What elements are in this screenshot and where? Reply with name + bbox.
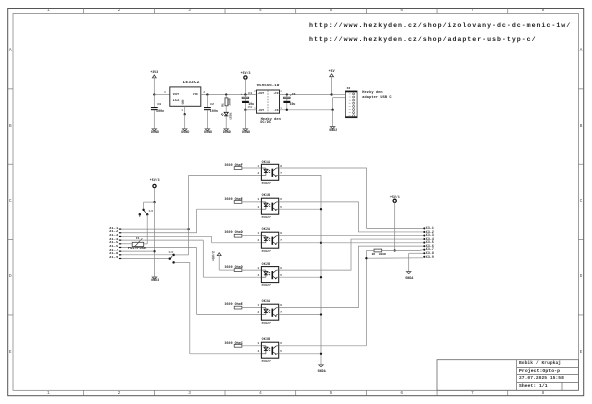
label: X3-2 <box>426 231 434 234</box>
wire +5V3 vertical to GND3 <box>154 202 156 277</box>
junction node gnda rail <box>320 242 322 244</box>
label: C <box>580 200 583 205</box>
supply ring +5V/3 mid <box>153 184 156 202</box>
wire X2 pin2 to gnd drop <box>333 98 346 110</box>
frame column ticks and numbers <box>84 9 508 396</box>
label: 2 <box>258 240 260 243</box>
junction node gnda rail <box>320 313 322 315</box>
label: 6 <box>400 9 403 14</box>
supply +3V3 <box>152 75 156 95</box>
label: 7 <box>280 240 282 243</box>
wire IC2 gnd down <box>184 114 186 128</box>
label: 1 <box>258 305 260 308</box>
label: +5V/2 <box>212 251 215 261</box>
label: B <box>9 125 12 130</box>
label: +OUT <box>257 93 264 96</box>
wire SJ2 padA right <box>175 254 189 256</box>
label: 1 <box>258 166 260 169</box>
label: Sheet: 1/1 <box>519 385 548 390</box>
label: PC827 <box>262 216 271 219</box>
resistor 3600 Ohm for OK3A <box>234 306 261 309</box>
label: PC827 <box>262 284 271 287</box>
label: 5 <box>280 207 282 210</box>
label: PC827 <box>262 360 271 363</box>
label: 4 <box>280 108 281 110</box>
label: X1-4 <box>109 239 118 243</box>
connector X3 pins <box>423 227 425 257</box>
label: X3-5 <box>426 241 434 244</box>
label: PC827 <box>262 250 271 253</box>
label: Hezky den <box>261 119 281 123</box>
solder jumper SJ1 <box>139 209 149 217</box>
label: 6 <box>400 392 403 397</box>
label: OK3A <box>262 300 271 303</box>
label: 3 <box>258 268 260 271</box>
label: B <box>580 125 583 130</box>
wire X1-1 <box>121 228 188 230</box>
label: X3-3 <box>426 234 434 237</box>
label: X1-9 <box>109 257 118 261</box>
label: 4 <box>258 207 260 210</box>
supply +5V usb <box>330 74 334 95</box>
ground DGND under IC2 <box>182 129 187 131</box>
label: 5 <box>330 9 333 14</box>
label: 0505SG-1W <box>257 84 280 88</box>
junction node IC2 gnd <box>184 113 186 115</box>
label: 8 <box>280 305 282 308</box>
junction node gnda rail <box>320 208 322 210</box>
ground GND2 <box>330 127 335 129</box>
wire IC2 VIN to rail <box>201 94 257 96</box>
label: DC/DC <box>260 122 271 125</box>
label: C2 <box>210 103 214 106</box>
label: LED1 <box>229 112 232 119</box>
ground DGND under C2 <box>205 129 210 131</box>
label: 100n <box>156 110 164 113</box>
junction node R1 <box>225 93 227 95</box>
label: X3-7 <box>426 248 434 251</box>
label: http://www.hezkyden.cz/shop/adapter-usb-typ-c/ <box>309 37 537 44</box>
wire X1-8 to SJ2 <box>121 254 172 256</box>
label: 1 <box>47 9 50 14</box>
supply +5V/2 arrow for OK2B <box>217 253 234 270</box>
label: VIN <box>193 94 198 97</box>
optocoupler OK1A PC827 <box>261 164 278 180</box>
label: X1-6 <box>109 246 118 250</box>
optocoupler OK3A PC827 <box>261 304 278 320</box>
label: DGND <box>181 131 189 134</box>
label: A <box>580 49 583 54</box>
resistor R1 200R <box>225 95 228 113</box>
label: X1-3 <box>109 235 118 239</box>
wire down to GND2 <box>332 110 334 127</box>
wire +3V3 rail to IC2 VOUT <box>154 94 170 96</box>
wire X1-9 to SJ2 <box>121 258 168 260</box>
label: 8 <box>280 233 282 236</box>
optocoupler OK2A PC827 <box>261 232 278 248</box>
label: 3600 OhmE <box>225 303 243 306</box>
wire to SJ1 top pad <box>144 202 155 209</box>
label: GND <box>183 100 186 105</box>
title block <box>437 360 578 391</box>
label: 6 <box>280 343 282 346</box>
label: C9 <box>157 103 161 106</box>
label: D <box>9 275 12 280</box>
ground GNDA right <box>406 272 411 274</box>
label: OK1B <box>262 194 271 197</box>
label: DGND <box>204 131 212 134</box>
label: 5 <box>280 275 282 278</box>
junction node C4 top <box>244 93 246 95</box>
label: 10u <box>248 103 254 106</box>
label: A <box>9 49 12 54</box>
label: +3V3 <box>150 71 158 74</box>
IC2 GND pin wire <box>184 106 186 114</box>
wire X3-5 from gnda rail <box>321 242 423 244</box>
ground DGND under LED1 <box>224 129 229 131</box>
label: 100n <box>210 110 218 113</box>
label: 5 <box>280 351 282 354</box>
label: 7 <box>280 173 282 176</box>
fuse F1 POLYFUSE <box>132 238 144 247</box>
wire OK1B collector to X3-2 <box>279 202 424 232</box>
label: 2 <box>118 392 121 397</box>
label: GNDA <box>318 370 326 373</box>
label: R1 <box>222 103 225 107</box>
label: X2 <box>347 87 351 90</box>
label: 1 <box>181 110 183 113</box>
capacitor C9 100n <box>151 95 158 129</box>
junction node R2/+5V1 <box>394 249 396 251</box>
label: 7 <box>471 392 474 397</box>
dc-dc converter 0505SG-1W <box>257 90 280 113</box>
label: X1-7 <box>109 250 118 254</box>
label: 8 <box>542 392 545 397</box>
label: 25V <box>248 107 253 110</box>
label: GND2 <box>329 129 337 132</box>
label: +5V/3 <box>150 179 160 182</box>
label: 2 <box>203 92 205 95</box>
label: X3-8 <box>426 252 434 255</box>
junction node C2 <box>206 93 208 95</box>
wire +5V rail to X2 pin1 <box>332 94 346 96</box>
resistor 3600 Ohm for OK2B <box>234 269 261 272</box>
label: 4 <box>258 351 260 354</box>
label: SJ2 <box>169 252 174 255</box>
label: X1-8 <box>109 253 118 257</box>
junction node gnda rail <box>320 276 322 278</box>
label: GND3 <box>151 279 159 282</box>
wire X3-8 to GNDA <box>409 253 424 271</box>
label: DGND <box>242 131 250 134</box>
label: +IN <box>273 93 278 96</box>
label: 2 <box>118 9 121 14</box>
label: 3 <box>188 392 191 397</box>
resistor 3600 Ohm for OK1B <box>234 201 261 204</box>
ground GND3 <box>152 277 157 279</box>
wire X1-6 <box>121 246 196 248</box>
label: 3 <box>258 343 260 346</box>
label: Bobik / Krupkaj <box>519 362 561 367</box>
label: X3-6 <box>426 245 434 248</box>
label: DGND <box>223 131 231 134</box>
wire net X1-4 to OK2B cathode <box>203 240 261 277</box>
junction node C5 bottom <box>286 109 288 111</box>
label: E <box>580 351 583 356</box>
label: OK2B <box>262 263 271 266</box>
label: 3600 OhmF <box>225 164 243 167</box>
label: 7 <box>280 312 282 315</box>
label: 300R <box>379 254 386 257</box>
wire OK2A collector to X3-3 <box>279 235 424 237</box>
label: 7 <box>471 9 474 14</box>
label: 27.07.2025 15:58 <box>519 377 564 382</box>
label: +5V/3 <box>241 72 251 75</box>
label: X1-5 <box>109 242 118 246</box>
junction node SJ1 tap <box>153 201 155 203</box>
wire net X1-6 to OK3A cathode <box>197 248 262 315</box>
wire OK1A collector to X3-1 <box>279 168 424 228</box>
junction node X1-7 <box>153 250 155 252</box>
label: OK3B <box>262 338 271 341</box>
label: 5 <box>330 392 333 397</box>
label: 6 <box>280 199 282 202</box>
label: 4 <box>259 9 262 14</box>
wire -IN bottom rail right <box>280 109 333 111</box>
label: 2 <box>258 312 260 315</box>
junction node +5V rail <box>330 93 332 95</box>
label: 3 <box>188 9 191 14</box>
label: Hezky den <box>362 92 382 96</box>
label: Project:Opto-p <box>519 370 560 375</box>
label: GNDA <box>405 277 413 280</box>
wire OK2B collector to X3-4 <box>279 239 424 270</box>
resistor 3600 Ohm for OK1A <box>234 167 261 170</box>
label: 3 <box>258 199 260 202</box>
resistor 3600 Ohm for OK2A <box>234 234 261 237</box>
optocoupler OK1B PC827 <box>261 198 278 214</box>
wire net X1-3 to OK2A cathode <box>212 237 262 243</box>
wire OK3A collector to X3-6 <box>279 246 424 307</box>
label: PC827 <box>262 182 271 185</box>
wire +IN to C5 <box>280 94 332 96</box>
label: + <box>240 94 242 97</box>
ground DGND under C4 <box>243 129 248 131</box>
wire -OUT to C4 bottom rail <box>245 109 256 111</box>
supply ring +5V/1 <box>393 199 396 250</box>
label: X3-9 <box>426 256 434 259</box>
wire opto emitter row 209.2 <box>279 208 321 210</box>
wire net X1-1/X1-8 to OK1A cathode <box>189 175 262 255</box>
capacitor C4 10u polarized <box>242 95 249 110</box>
label: 2 <box>254 91 255 93</box>
label: X3-1 <box>426 227 434 230</box>
label: D <box>580 275 583 280</box>
label: 1 <box>47 392 50 397</box>
label: X1-1 <box>109 228 118 232</box>
label: 1 <box>254 108 255 110</box>
label: 3600 OhmC <box>225 342 243 345</box>
label: 3 <box>164 92 166 95</box>
label: +5V/1 <box>390 196 400 199</box>
label: LE33CZ <box>183 81 200 85</box>
label: X3-4 <box>426 238 434 241</box>
wire opto emitter row 314.5 <box>279 314 321 316</box>
ground DGND under C9 <box>152 129 157 131</box>
wire SJ1 to fuse F1 <box>144 214 148 244</box>
optocoupler OK3B PC827 <box>261 342 278 358</box>
label: 8 <box>280 166 282 169</box>
junction node X3-9 tap <box>365 257 367 259</box>
label: POLYFUSE <box>128 248 147 252</box>
label: VOUT <box>173 94 179 97</box>
wire SJ2 padC to OK3B cathode <box>175 262 262 353</box>
solder jumper SJ2 <box>169 254 175 264</box>
label: OK2A <box>262 228 271 231</box>
label: R2 <box>372 254 375 257</box>
label: SJ1 <box>149 211 154 214</box>
label: OK1A <box>262 161 271 164</box>
label: http://www.hezkyden.cz/shop/izolovany-dc-dc-menic-1w/ <box>309 23 571 30</box>
capacitor C5 10u polarized <box>283 95 290 110</box>
capacitor C2 100n <box>204 95 211 129</box>
label: 200R <box>229 98 232 105</box>
wire R2 left to X3-9 and OK3B collector <box>279 251 424 346</box>
label: 6 <box>280 268 282 271</box>
wire C4 to DGND <box>244 110 246 129</box>
resistor 3600 Ohm for OK3B <box>234 344 261 347</box>
wire X1-5 to fuse <box>121 243 132 245</box>
label: IC2 <box>173 100 180 104</box>
frame row ticks and letters <box>8 89 584 315</box>
label: 3 <box>280 91 281 93</box>
junction node C4 bottom <box>244 109 246 111</box>
label: -OUT <box>257 110 264 113</box>
connector X2 usb adapter <box>345 91 357 118</box>
wire net X1-2 to OK1B cathode <box>197 209 262 233</box>
junction node C5 top <box>286 93 288 95</box>
label: 1 <box>258 233 260 236</box>
label: X1-2 <box>109 231 118 235</box>
wire GNDA rail (opto emitters) <box>279 175 321 364</box>
label: 4 <box>258 275 260 278</box>
label: F1 <box>136 237 140 240</box>
wire opto emitter row 242.8 <box>279 242 321 244</box>
label: 3600 OhmD <box>225 266 243 269</box>
connector X1 pins <box>119 229 121 260</box>
label: 4 <box>259 392 262 397</box>
label: C <box>9 200 12 205</box>
label: + <box>290 95 292 98</box>
wire X1-4 <box>121 239 203 241</box>
regulator IC2 LE33CZ <box>170 87 201 106</box>
label: adapter USB C <box>362 97 391 101</box>
supply ring +5V/3 top <box>244 76 247 95</box>
label: 8 <box>542 9 545 14</box>
label: C5 <box>292 93 296 96</box>
label: C4 <box>248 92 252 95</box>
wire opto emitter row 353.8 <box>279 353 321 355</box>
label: 3600 OhmE <box>225 198 243 201</box>
junction node gnda rail <box>320 353 322 355</box>
label: +5V <box>329 70 335 73</box>
wire X1-2 <box>121 232 196 234</box>
junction node X1-1 <box>187 228 189 230</box>
label: -IN <box>273 110 278 113</box>
optocoupler OK2B PC827 <box>261 267 278 283</box>
junction node gnd2 <box>331 109 333 111</box>
label: PC827 <box>262 322 271 325</box>
label: E <box>9 351 12 356</box>
junction node +3V3/C9 <box>153 93 155 95</box>
ground GNDA bottom <box>319 365 324 367</box>
wire X1-7 <box>121 250 154 252</box>
label: 10u <box>290 103 296 106</box>
label: 3600 OhmD <box>225 231 243 234</box>
resistor R2 300R <box>366 249 423 252</box>
label: 2 <box>258 173 260 176</box>
wire opto emitter row 277.2 <box>279 276 321 278</box>
LED LED1 <box>221 112 228 128</box>
label: DGND <box>151 131 159 134</box>
wire X1-3 <box>121 235 211 237</box>
